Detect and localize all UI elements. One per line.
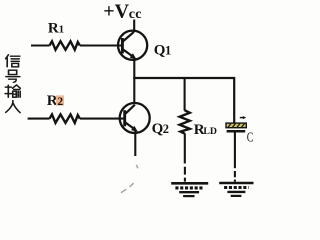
svg-text:R: R (48, 20, 59, 36)
svg-text:1: 1 (59, 23, 65, 35)
svg-text:C: C (247, 130, 254, 145)
svg-text:LD: LD (203, 126, 217, 137)
svg-text:2: 2 (163, 122, 169, 136)
svg-text:1: 1 (165, 43, 171, 57)
svg-text:2: 2 (57, 96, 63, 108)
svg-text:Q: Q (152, 121, 164, 137)
svg-text:+V: +V (103, 1, 129, 23)
svg-text:cc: cc (129, 7, 142, 22)
svg-text:Q: Q (154, 42, 166, 58)
